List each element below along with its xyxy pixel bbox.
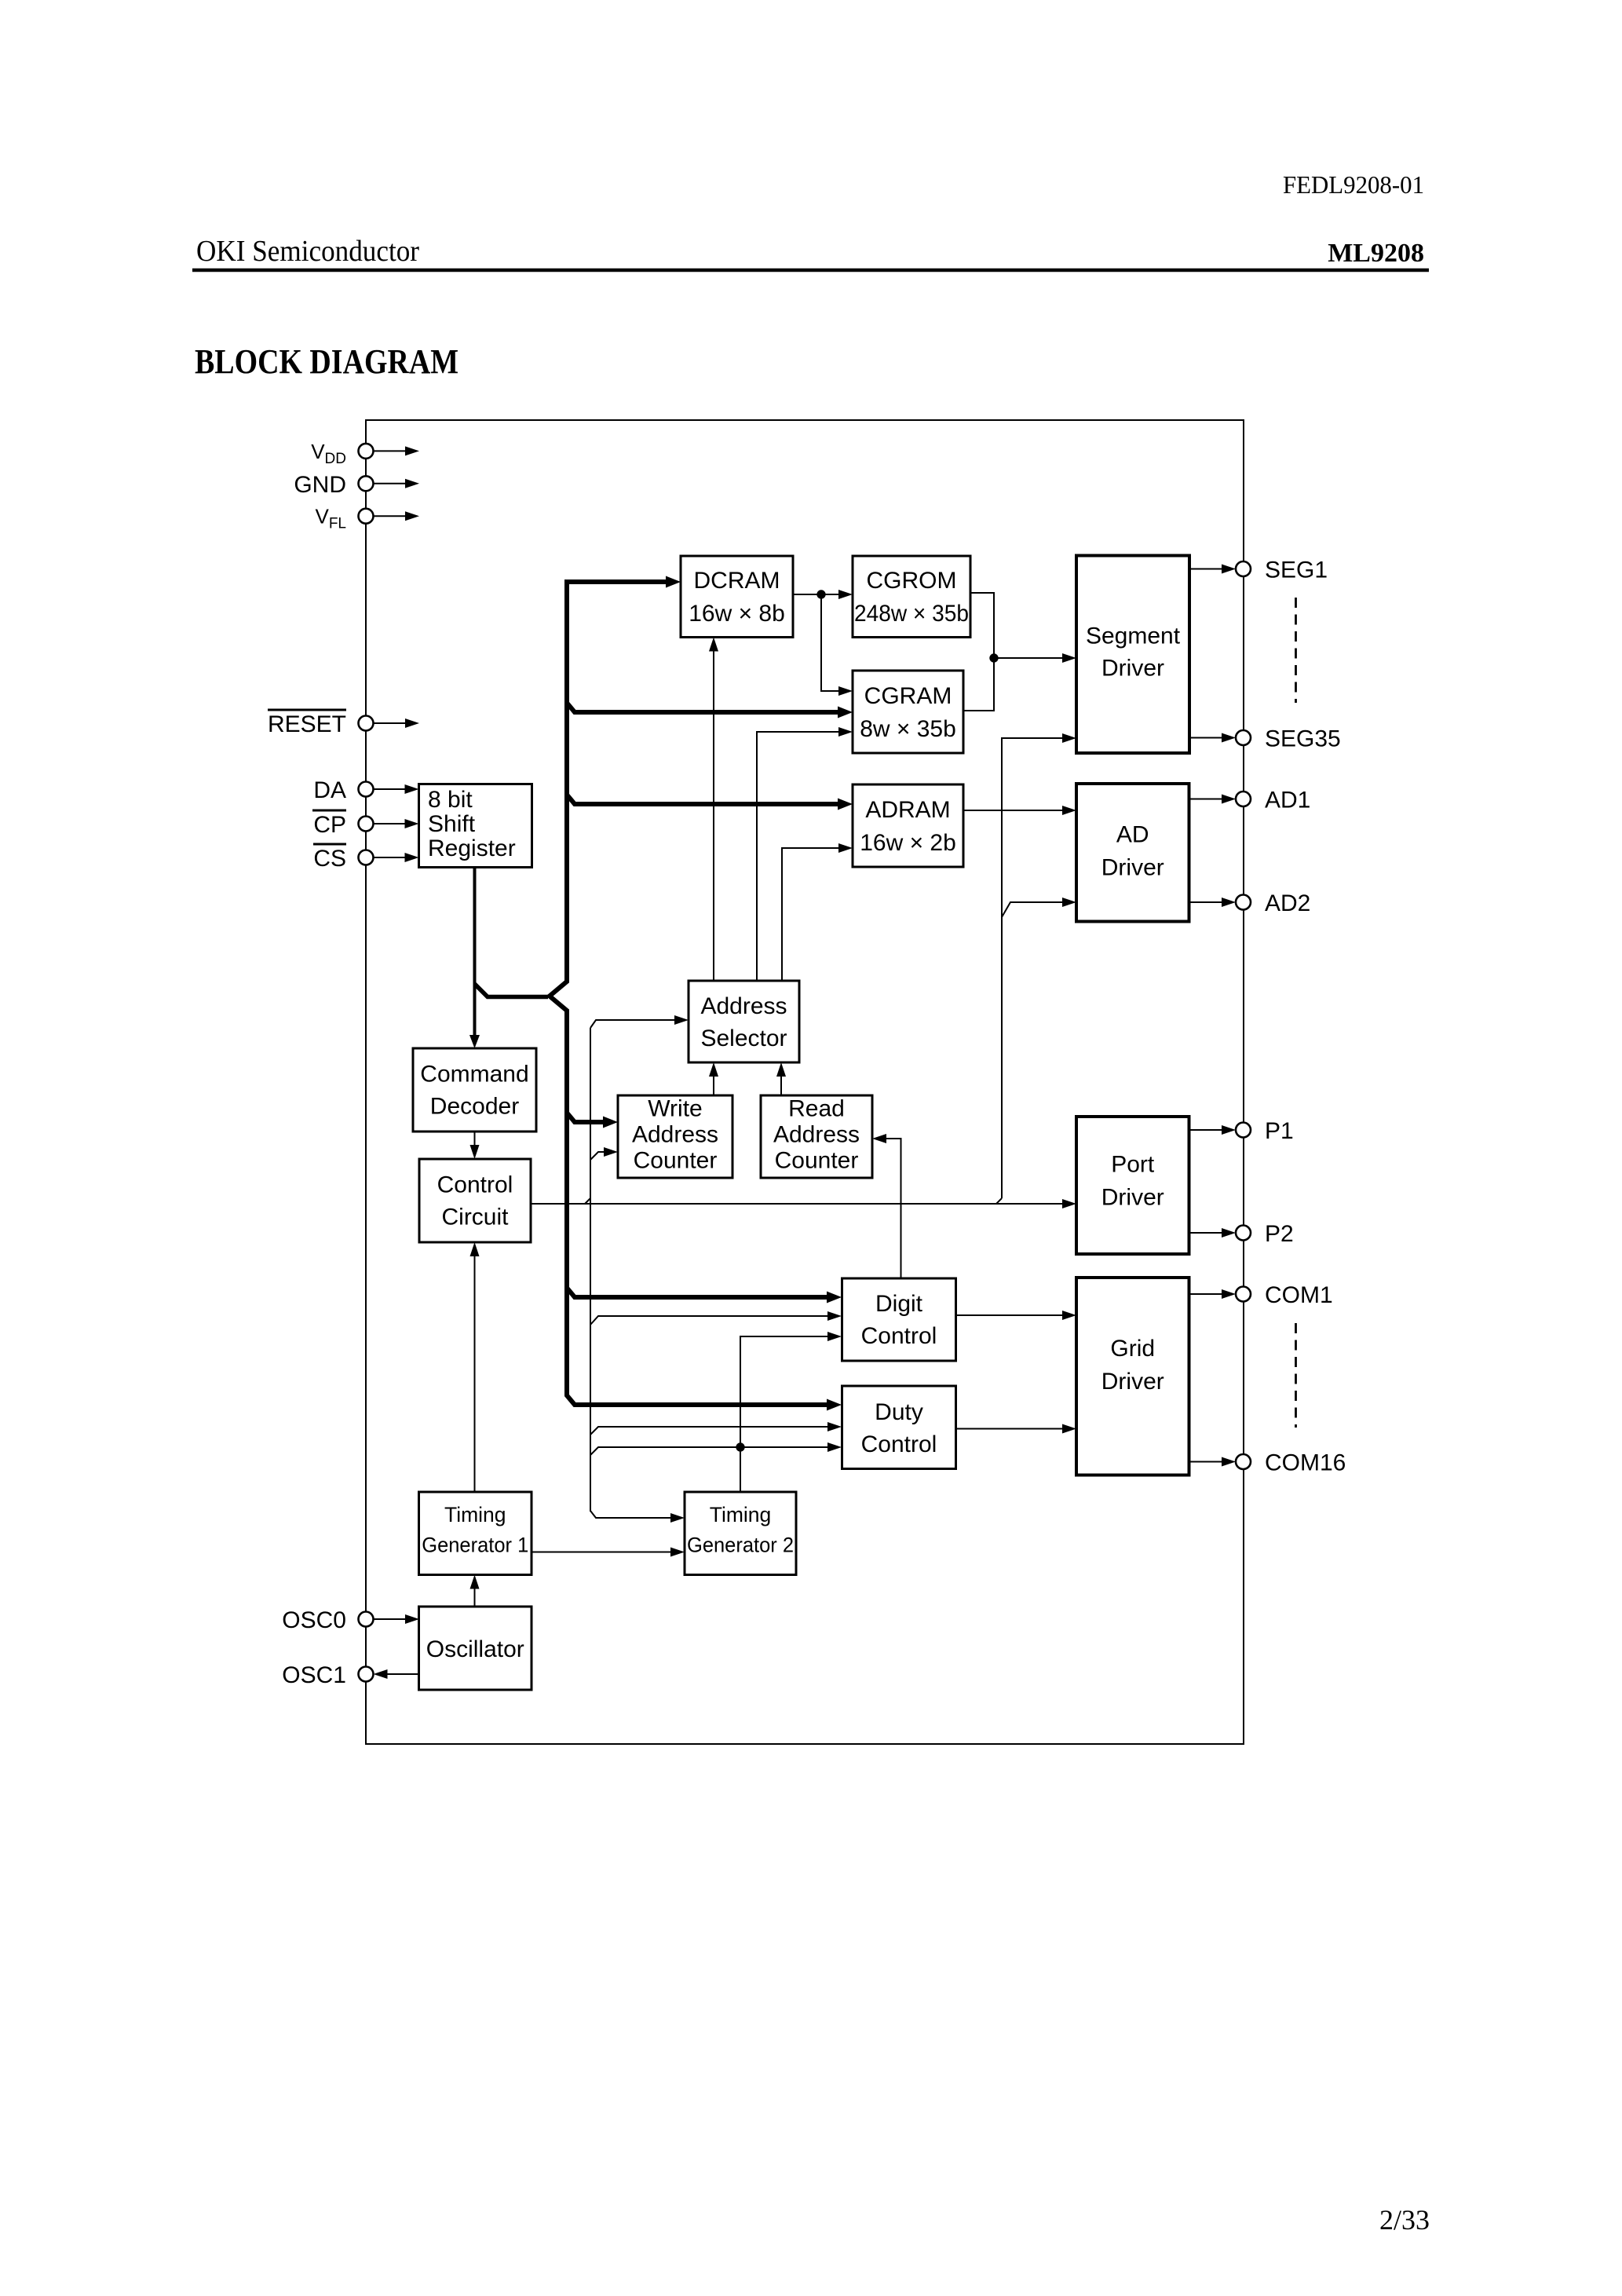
control feed riser to Segment Driver lower input [996, 1198, 1002, 1204]
wire Address Selector to DCRAM bottom [713, 651, 714, 981]
wire Command Decoder to Control Circuit [474, 1132, 476, 1146]
block Timing Generator 2 [685, 1492, 796, 1575]
svg-text:Address: Address [700, 993, 787, 1019]
svg-text:Grid: Grid [1110, 1336, 1155, 1362]
svg-text:OKI Semiconductor: OKI Semiconductor [196, 235, 419, 268]
svg-text:Address: Address [773, 1122, 860, 1148]
svg-text:ML9208: ML9208 [1328, 239, 1424, 268]
svg-text:Driver: Driver [1101, 1185, 1164, 1211]
junction dot on character generator output [989, 653, 998, 662]
svg-text:Segment: Segment [1086, 623, 1181, 649]
header horizontal rule [192, 269, 1429, 272]
wire from Shift Register to bus junction [475, 984, 549, 997]
wire Digit Control to Read Address Counter [886, 1139, 901, 1278]
svg-text:16w × 8b: 16w × 8b [689, 601, 785, 627]
wire control net to Digit Control second input [590, 1316, 827, 1325]
wire Grid Driver to COM1 pin [1189, 1293, 1223, 1295]
wire DCRAM output to CGRAM first input [821, 594, 838, 691]
svg-text:Digit: Digit [875, 1291, 923, 1317]
pin RESET [374, 722, 407, 724]
svg-text:ADRAM: ADRAM [865, 797, 950, 823]
pin AD2 [1236, 895, 1251, 910]
wire junction to Digit Control third input [740, 1336, 827, 1447]
pin CS [374, 857, 406, 858]
svg-text:Write: Write [648, 1096, 702, 1122]
svg-text:Register: Register [428, 835, 516, 861]
wire control net to Write Address Counter second input [590, 1152, 604, 1160]
svg-text:Shift: Shift [428, 811, 476, 837]
block Port Driver [1076, 1117, 1189, 1254]
wire Address Selector to CGRAM third input [757, 732, 838, 981]
pin P2 [1236, 1226, 1251, 1241]
wire junction to Timing Generator 2 top [740, 1447, 741, 1492]
svg-text:Circuit: Circuit [441, 1205, 509, 1230]
svg-text:Control: Control [861, 1323, 937, 1349]
wire Timing Generator 1 to Timing Generator 2 [532, 1552, 670, 1553]
svg-text:Counter: Counter [634, 1148, 718, 1174]
pin SEG35 [1236, 730, 1251, 745]
svg-text:DCRAM: DCRAM [694, 568, 780, 594]
wire Port Driver to P2 pin [1189, 1232, 1223, 1234]
svg-text:P2: P2 [1265, 1221, 1294, 1247]
pin SEG1 [1236, 561, 1251, 576]
pin COM16 [1236, 1454, 1251, 1469]
thick bus branch to CGRAM [567, 703, 838, 712]
wire ADRAM output to AD Driver [963, 810, 1062, 811]
wire control net to Address Selector [590, 1020, 674, 1028]
svg-text:OSC1: OSC1 [282, 1662, 346, 1688]
pin AD1 [1236, 792, 1251, 806]
svg-text:Oscillator: Oscillator [426, 1636, 524, 1662]
pin P1 [1236, 1123, 1251, 1138]
svg-text:GND: GND [294, 472, 346, 498]
wire Address Selector to ADRAM second input [782, 848, 838, 981]
pin OSC0 [374, 1618, 407, 1620]
wire Write Address Counter to Address Selector [713, 1077, 714, 1095]
block Control Circuit [419, 1159, 531, 1242]
svg-text:Control: Control [437, 1172, 513, 1198]
branch to AD Driver lower input [1002, 902, 1062, 917]
wire Control Circuit output to Port Driver [532, 1203, 1062, 1205]
svg-text:248w × 35b: 248w × 35b [854, 601, 969, 627]
svg-text:8w × 35b: 8w × 35b [860, 716, 956, 742]
thick bus branch to Digit Control [567, 1288, 827, 1297]
chip boundary rectangle [366, 420, 1244, 1744]
svg-text:OSC0: OSC0 [282, 1607, 346, 1633]
svg-text:AD2: AD2 [1265, 890, 1310, 916]
svg-text:VFL: VFL [315, 505, 346, 532]
thick data bus vertical with DCRAM branch and Duty Control branch [550, 582, 827, 1405]
block Write Address Counter [618, 1095, 732, 1178]
control net vertical riser x=752 with chamfer joints [585, 1198, 590, 1204]
svg-text:SEG1: SEG1 [1265, 558, 1328, 583]
svg-text:SEG35: SEG35 [1265, 726, 1341, 752]
wire Duty Control to Grid Driver [956, 1428, 1062, 1430]
dashed ellipsis between COM1 and COM16 [1295, 1323, 1297, 1428]
svg-text:Address: Address [632, 1122, 718, 1148]
wire control net to Duty Control third input [590, 1447, 827, 1455]
block Grid Driver [1076, 1278, 1189, 1475]
svg-text:Timing: Timing [444, 1503, 506, 1526]
block Duty Control [842, 1386, 956, 1469]
wire from Shift Register to Command Decoder [473, 867, 477, 1036]
block Address Selector [689, 981, 799, 1062]
svg-text:Timing: Timing [710, 1503, 772, 1526]
svg-text:Generator 2: Generator 2 [687, 1534, 794, 1557]
svg-text:Selector: Selector [700, 1026, 787, 1051]
pin CP [374, 823, 406, 824]
wire Digit Control to Grid Driver [956, 1314, 1062, 1316]
pin OSC1 [387, 1673, 419, 1675]
svg-text:BLOCK DIAGRAM: BLOCK DIAGRAM [195, 342, 458, 381]
wire CGROM and CGRAM outputs to Segment Driver [963, 593, 994, 711]
svg-text:FEDL9208-01: FEDL9208-01 [1283, 170, 1424, 199]
svg-text:Driver: Driver [1101, 855, 1164, 881]
svg-text:COM1: COM1 [1265, 1282, 1333, 1308]
pin VDD [374, 450, 407, 452]
svg-text:Port: Port [1111, 1152, 1155, 1178]
svg-text:VDD: VDD [311, 440, 346, 467]
svg-text:Read: Read [788, 1096, 845, 1122]
block Digit Control [842, 1278, 956, 1361]
pin VFL [374, 515, 407, 517]
svg-text:Driver: Driver [1101, 656, 1164, 682]
wire control net to Duty Control second input [590, 1427, 827, 1435]
svg-text:RESET: RESET [268, 711, 346, 737]
svg-text:CS: CS [313, 846, 346, 872]
block 8 bit Shift Register [419, 784, 532, 868]
svg-text:Counter: Counter [775, 1148, 859, 1174]
svg-text:Driver: Driver [1101, 1369, 1164, 1395]
svg-text:Control: Control [861, 1431, 937, 1457]
block Timing Generator 1 [419, 1492, 532, 1575]
wire DCRAM output to CGROM [793, 594, 838, 595]
wire Read Address Counter to Address Selector [780, 1077, 782, 1095]
wire Segment Driver to SEG1 pin [1189, 569, 1222, 570]
svg-text:CP: CP [313, 812, 346, 838]
thick bus branch to ADRAM [567, 795, 838, 804]
block Segment Driver [1076, 556, 1189, 754]
svg-text:2/33: 2/33 [1379, 2204, 1430, 2236]
wire Segment Driver to SEG35 pin [1189, 737, 1222, 739]
block Read Address Counter [761, 1095, 872, 1178]
block Oscillator [419, 1607, 532, 1690]
pin DA [374, 788, 406, 790]
svg-text:CGROM: CGROM [867, 568, 957, 594]
wire junction to Segment Driver first input [994, 657, 1062, 659]
block AD Driver [1076, 784, 1189, 922]
wire Grid Driver to COM16 pin [1189, 1461, 1223, 1463]
wire Timing Generator 1 to Control Circuit [474, 1256, 476, 1492]
svg-text:Generator 1: Generator 1 [422, 1534, 528, 1557]
block Command Decoder [413, 1048, 536, 1132]
svg-text:AD: AD [1116, 822, 1149, 848]
pin COM1 [1236, 1287, 1251, 1302]
svg-text:P1: P1 [1265, 1118, 1294, 1144]
wire AD Driver to AD2 pin [1189, 901, 1223, 903]
svg-text:16w × 2b: 16w × 2b [860, 830, 956, 856]
block DCRAM 16w x 8b [681, 556, 793, 638]
dashed ellipsis between SEG1 and SEG35 [1295, 598, 1297, 703]
svg-text:8 bit: 8 bit [428, 787, 473, 813]
block CGRAM 8w x 35b [853, 671, 963, 753]
junction dot on duty control third input line [736, 1442, 744, 1451]
svg-text:Decoder: Decoder [430, 1094, 519, 1120]
block CGROM 248w x 35b [853, 556, 970, 638]
junction dot on DCRAM output [816, 590, 825, 598]
thick bus branch to Write Address Counter [567, 1113, 604, 1122]
svg-text:Command: Command [420, 1062, 528, 1088]
svg-text:Duty: Duty [875, 1399, 923, 1425]
wire Oscillator to Timing Generator 1 [474, 1589, 476, 1607]
wire AD Driver to AD1 pin [1189, 799, 1223, 800]
wire Port Driver to P1 pin [1189, 1129, 1223, 1131]
svg-text:CGRAM: CGRAM [864, 683, 952, 709]
svg-text:COM16: COM16 [1265, 1450, 1346, 1476]
svg-text:AD1: AD1 [1265, 788, 1310, 813]
pin GND [374, 483, 407, 484]
wire control net to Timing Generator 2 upper input [590, 1511, 670, 1518]
block ADRAM 16w x 2b [853, 784, 963, 867]
svg-text:DA: DA [313, 777, 346, 803]
